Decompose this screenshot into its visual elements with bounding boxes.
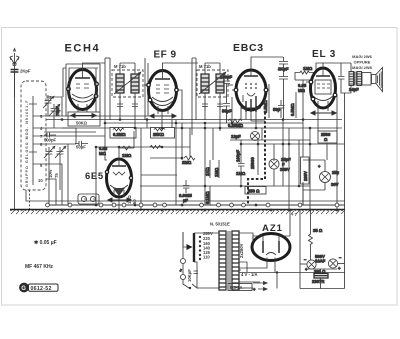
- resistor 0.03M: [99, 146, 108, 156]
- svg-text:12µF: 12µF: [231, 134, 241, 139]
- wires oscillator: [44, 132, 96, 205]
- heater arrows ECH4: [71, 114, 96, 118]
- svg-text:2KpF: 2KpF: [20, 69, 31, 74]
- shielded wire: [248, 112, 265, 204]
- pin knobs ECH4: [67, 82, 99, 98]
- svg-text:MAGI 2W8: MAGI 2W8: [352, 65, 373, 70]
- resistor 0.5M vertical: [263, 84, 269, 118]
- trimmer capacitor 75pF: [43, 95, 60, 128]
- wire antenna down: [14, 72, 16, 210]
- wire terminal rails: [46, 97, 162, 205]
- heater arrows 6E5: [108, 198, 131, 202]
- heater arrows output: [253, 282, 267, 293]
- resistor 25000 vertical: [250, 140, 258, 175]
- svg-text:1KΩ: 1KΩ: [205, 167, 210, 176]
- svg-text:100pF: 100pF: [236, 149, 241, 162]
- svg-text:350V: 350V: [280, 167, 290, 172]
- tube AZ1: [252, 234, 290, 261]
- svg-text:0.25MΩ: 0.25MΩ: [228, 123, 244, 128]
- resistor 0.25M ohm: [228, 119, 244, 128]
- heater arrows EL3: [311, 111, 336, 115]
- heater arrows EBC3: [242, 106, 260, 110]
- wires EBC3: [232, 57, 283, 128]
- capacitor 500pF: [44, 133, 57, 143]
- antenna: [10, 49, 19, 98]
- resistor 2M: [182, 156, 195, 165]
- svg-text:280V: 280V: [303, 171, 308, 181]
- capacitor IF1 left: [117, 100, 123, 110]
- svg-text:1MΩ: 1MΩ: [214, 167, 219, 177]
- ground bus: [10, 209, 345, 211]
- resistor 0.5M vertical 2: [290, 92, 296, 118]
- resistor 25K ohm: [151, 128, 175, 139]
- svg-text:50: 50: [132, 199, 137, 204]
- resistor 0.05 M ohm: [295, 80, 311, 93]
- svg-text:0612-52: 0612-52: [31, 286, 52, 292]
- svg-text:30V: 30V: [331, 182, 339, 187]
- speaker: [362, 68, 383, 92]
- svg-text:0.2MΩ: 0.2MΩ: [113, 132, 126, 137]
- svg-text:EF 9: EF 9: [154, 50, 177, 61]
- svg-text:2307R: 2307R: [312, 279, 324, 284]
- capacitor 25u 30V: [303, 160, 340, 190]
- capacitor 24uF: [338, 63, 359, 93]
- svg-text:10: 10: [38, 178, 43, 183]
- capacitor 15uF 350V: [269, 157, 291, 172]
- svg-text:+ 7: + 7: [291, 212, 298, 217]
- pilot lamp box: [78, 194, 99, 204]
- tube EF9: [149, 71, 177, 111]
- open junctions on rail: [46, 203, 339, 207]
- capacitor 12uF: [231, 132, 260, 141]
- capacitor 3KpF chain: [278, 57, 289, 120]
- wires EL3: [306, 63, 345, 289]
- pin knobs EBC3: [234, 88, 268, 92]
- svg-text:50pF: 50pF: [222, 109, 232, 114]
- ground bus hatch: [10, 211, 345, 215]
- wires IF1: [120, 58, 148, 131]
- capacitor 50pF: [75, 141, 88, 150]
- mid mesh wires: [96, 80, 345, 210]
- resistor 1K vertical: [205, 160, 210, 178]
- output transformer: [341, 63, 371, 93]
- svg-text:25KΩ: 25KΩ: [153, 132, 165, 137]
- wires around ECH4: [63, 58, 110, 131]
- wires transformer secondary: [239, 233, 260, 288]
- IF transformer 2: [197, 64, 228, 97]
- svg-text:2x280V: 2x280V: [239, 243, 244, 258]
- svg-text:0.5MΩ: 0.5MΩ: [290, 103, 295, 116]
- svg-text:50pF: 50pF: [76, 145, 86, 150]
- trimmer capacitors oscillator: [44, 146, 66, 159]
- resistor 300 ohm: [312, 269, 328, 284]
- bottom power wires: [276, 190, 345, 289]
- svg-text:25µ: 25µ: [332, 170, 340, 175]
- tube ECH4: [69, 70, 97, 110]
- label 6,3-2A box: [228, 284, 252, 291]
- capacitor 2KpF: [11, 69, 31, 74]
- svg-text:EL 3: EL 3: [312, 49, 336, 60]
- svg-text:110: 110: [203, 255, 210, 260]
- svg-text:50KΩ: 50KΩ: [76, 121, 88, 126]
- logo: [19, 283, 58, 293]
- capacitor IF1 right: [132, 100, 138, 110]
- junction dots on rails: [61, 118, 312, 187]
- svg-text:OPPURE: OPPURE: [354, 60, 371, 65]
- tuner box bottom leads: [26, 190, 150, 210]
- capacitor IF2 right: [217, 100, 223, 110]
- resistor 280V vertical: [301, 157, 310, 184]
- IF transformer 1: [112, 64, 143, 97]
- svg-text:∿: ∿: [178, 268, 183, 272]
- svg-text:50p: 50p: [273, 107, 281, 112]
- tuner inner wires: [29, 96, 46, 185]
- svg-text:25000: 25000: [250, 157, 255, 169]
- svg-text:75: 75: [54, 173, 59, 178]
- resistor 0.1M vertical: [205, 186, 210, 205]
- svg-text:24µF: 24µF: [349, 87, 359, 92]
- svg-text:MΩ: MΩ: [298, 88, 305, 93]
- svg-text:3KpF: 3KpF: [278, 67, 289, 72]
- power transformer: [219, 231, 239, 290]
- svg-text:10KpF: 10KpF: [187, 269, 192, 282]
- svg-text:6E5: 6E5: [85, 171, 104, 182]
- resistor 0.2M ohm: [110, 128, 136, 139]
- tube 6E5: [107, 159, 132, 197]
- wires 6E5: [96, 131, 134, 205]
- svg-text:MF 467 KHz: MF 467 KHz: [25, 264, 54, 270]
- svg-text:35 Ω: 35 Ω: [313, 228, 323, 233]
- pin knobs EL3: [309, 80, 337, 101]
- pin knobs EF9: [147, 83, 179, 102]
- heater arrows EF9: [150, 114, 176, 118]
- svg-text:500pF: 500pF: [44, 138, 57, 143]
- svg-text:100pF: 100pF: [220, 75, 233, 80]
- svg-text:0.1MΩ: 0.1MΩ: [205, 191, 210, 204]
- svg-text:EBC3: EBC3: [233, 42, 264, 54]
- lower rail: [47, 204, 345, 206]
- svg-text:✱ 0.05 µF: ✱ 0.05 µF: [34, 240, 57, 246]
- svg-text:µF: µF: [183, 198, 188, 203]
- mains terminals: [178, 232, 219, 289]
- B+ mid rails: [46, 120, 345, 145]
- svg-text:0.5MΩ: 0.5MΩ: [263, 100, 268, 113]
- voltage selector: [183, 231, 219, 262]
- capacitor 100pF vertical: [236, 140, 246, 186]
- svg-text:G: G: [21, 286, 26, 292]
- resistor 1M vertical: [214, 160, 219, 178]
- svg-text:16AF: 16AF: [315, 259, 326, 264]
- speaker text MAGI: [352, 54, 373, 70]
- tube EBC3: [236, 70, 266, 110]
- svg-text:GRUPPO GELOSO MOD. N91661-F: GRUPPO GELOSO MOD. N91661-F: [25, 99, 29, 187]
- wires IF2: [192, 58, 233, 135]
- pin knobs 6E5: [105, 170, 132, 179]
- svg-text:6,3-2A: 6,3-2A: [230, 285, 243, 290]
- svg-text:1MΩ: 1MΩ: [236, 171, 246, 176]
- resistor 35 ohm: [309, 210, 323, 260]
- resistor 1M: [122, 146, 132, 158]
- svg-text:2MΩ: 2MΩ: [182, 160, 192, 165]
- capacitor 100pF EBC3: [220, 75, 233, 104]
- capacitor 0.0025uF: [179, 180, 192, 203]
- junction dots on bus: [61, 204, 339, 212]
- svg-text:ECH4: ECH4: [65, 43, 101, 55]
- capacitor 50p: [273, 100, 285, 118]
- wires EF9: [144, 63, 198, 120]
- tube EL3: [311, 68, 336, 108]
- svg-text:1MΩ: 1MΩ: [303, 66, 313, 71]
- svg-text:1MΩ: 1MΩ: [122, 153, 132, 158]
- resistor 2500 ohm box: [318, 131, 337, 143]
- svg-text:MAGI 2W6: MAGI 2W6: [352, 54, 373, 59]
- terminal numbers: [38, 95, 52, 183]
- resistor 250 ohm: [245, 187, 266, 195]
- electrolytic 16uF 500V: [304, 254, 342, 272]
- capacitor 50pF EBC3: [222, 104, 232, 124]
- padder labels: [48, 169, 59, 178]
- resistor 50K pot box: [68, 112, 100, 126]
- capacitor IF2 left: [202, 100, 208, 110]
- resistor 1M ohm: [295, 63, 323, 80]
- svg-text:N. 50151E: N. 50151E: [210, 222, 230, 227]
- svg-text:250 Ω: 250 Ω: [248, 189, 260, 194]
- tuner unit GRUPPO GELOSO box: [21, 81, 46, 190]
